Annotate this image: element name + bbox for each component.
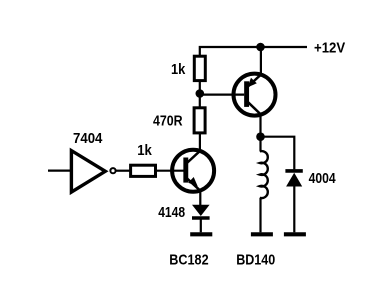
transistor Q1 BC182 NPN (172, 150, 214, 192)
diode D1 1N4148 (192, 205, 210, 218)
wire BD140 emitter to +12V rail (260, 47, 262, 75)
svg-text:+12V: +12V (314, 40, 345, 56)
wire node to 470R top (199, 95, 201, 108)
resistor R 470R (vertical) (194, 108, 205, 133)
ground terminal bar (diode) (284, 232, 306, 236)
wire bubble to 1k resistor (116, 170, 131, 172)
wire +12V supply rail (200, 47, 307, 56)
svg-text:470R: 470R (153, 114, 183, 130)
inverter output bubble (110, 168, 115, 173)
node junction collector/coil/diode (256, 132, 265, 141)
wire 4004 to ground bar (293, 187, 295, 233)
ground terminal bar (BC182 emitter) (190, 232, 212, 236)
svg-text:BD140: BD140 (236, 253, 275, 269)
transistor Q2 BD140 PNP (234, 74, 276, 116)
node junction 1k/470R/base BD140 (196, 89, 205, 98)
svg-text:1k: 1k (171, 62, 186, 78)
wire 1k to BC182 base (156, 170, 185, 172)
node junction on +12V rail (256, 43, 265, 52)
ground terminal bar (coil) (251, 232, 273, 236)
wire 470R bottom to BC182 collector (199, 133, 201, 152)
inductor L1 relay coil (260, 137, 268, 233)
wire node to 4004 diode (261, 137, 295, 170)
resistor R 1k (top, vertical) (194, 56, 205, 80)
wire base of BD140 (200, 93, 244, 95)
gate inverter 7404 triangle (71, 151, 105, 193)
svg-text:4148: 4148 (158, 205, 185, 221)
svg-text:4004: 4004 (309, 171, 337, 187)
resistor R 1k (horizontal) (131, 165, 156, 176)
wire inverter input (48, 170, 71, 172)
wire diode to ground bar (200, 219, 202, 232)
svg-text:BC182: BC182 (169, 253, 208, 269)
diode D2 1N4004 (285, 171, 302, 187)
svg-text:7404: 7404 (73, 131, 103, 147)
wire 1k bottom to node (199, 81, 201, 94)
wire BD140 collector down to node (259, 114, 261, 137)
wire BC182 emitter to diode (199, 190, 201, 205)
svg-text:1k: 1k (137, 143, 152, 159)
